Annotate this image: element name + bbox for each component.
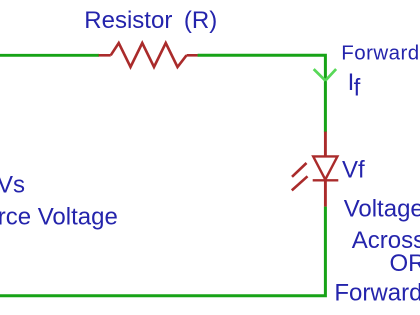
resistor R zigzag body (111, 43, 187, 67)
wire top-right green segment to corner and down (198, 55, 326, 132)
wire right green segment down to bottom-left (0, 207, 325, 296)
wire resistor lead left (dark red) (99, 54, 111, 57)
wire LED cathode lead (dark red) (324, 180, 327, 206)
svg-text:Forward: Forward (341, 42, 419, 65)
wire LED anode lead (dark red) (324, 132, 327, 157)
svg-text:Forward: Forward (334, 280, 420, 307)
svg-text:Vf: Vf (342, 156, 365, 183)
LED emission arrow lower (292, 176, 308, 190)
svg-text:Vs: Vs (0, 171, 25, 198)
svg-text:f: f (354, 74, 361, 101)
LED D1 triangle (313, 156, 337, 179)
wire top-left green segment (0, 54, 99, 57)
current direction arrow If (bright green) (314, 69, 336, 81)
svg-text:Voltage: Voltage (344, 196, 420, 223)
svg-text:Resistor: Resistor (84, 7, 172, 34)
wire resistor lead right (dark red) (187, 54, 198, 57)
svg-text:OR: OR (390, 250, 420, 277)
svg-text:(R): (R) (184, 7, 217, 34)
LED cathode bar (313, 179, 339, 181)
svg-text:Source Voltage: Source Voltage (0, 203, 118, 230)
LED emission arrow upper (292, 163, 307, 177)
